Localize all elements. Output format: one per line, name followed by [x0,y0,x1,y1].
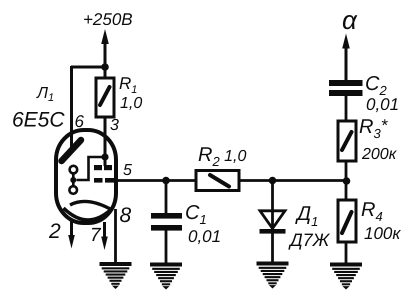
junction node C1 [162,177,170,185]
R3 slash [342,132,352,150]
R4 slash [342,212,352,233]
capacitor C2 [329,80,363,96]
resistor R3 [338,121,356,161]
R2 slash [210,175,229,187]
svg-text:C1: C1 [185,202,207,227]
svg-text:Д1: Д1 [295,203,318,229]
svg-text:0,01: 0,01 [188,227,221,246]
resistor R1 [96,78,114,117]
wire C2 to R3 [345,96,348,121]
pin 8 wire to ground [114,209,117,264]
supply arrow up [101,29,109,78]
capacitor C1 [151,213,182,231]
svg-text:Л1: Л1 [36,85,54,104]
tube deflector upper circle [70,166,78,174]
ground (C1) [150,263,182,290]
junction node D1 [269,177,277,185]
wire D1 top [271,181,274,232]
diode D1 cathode bar [260,229,286,234]
svg-text:100к: 100к [364,224,401,243]
tube anode junction dot [101,153,108,160]
svg-text:2: 2 [48,220,61,243]
output arrow up (node a) [342,34,350,82]
tube deflector dot [70,177,76,183]
tube deflector lower circle [69,186,77,194]
wire C1 bottom [165,230,168,264]
R1 slash [100,87,110,105]
svg-text:1,0: 1,0 [120,95,142,112]
wire R1 bottom to anode dot [104,117,107,166]
wire D1 bottom [271,233,274,263]
svg-text:R1: R1 [119,74,137,96]
pin 2 arrow down [68,219,75,249]
wire R2 to right branch [239,179,347,182]
svg-text:6: 6 [75,112,85,131]
svg-text:7: 7 [90,225,102,246]
svg-text:0,01: 0,01 [366,95,399,114]
ground (D1) [257,262,289,289]
junction node R3/R4 [343,177,351,185]
tube anode dashes [94,165,112,170]
diode D1 [260,211,285,229]
svg-text:R2 1,0: R2 1,0 [198,144,246,169]
wire R4 to ground [345,242,348,264]
svg-text:R3*: R3* [359,116,389,141]
svg-text:8: 8 [120,204,132,227]
ground (pin 8) [100,262,132,289]
svg-text:6Е5С: 6Е5С [12,109,65,132]
junction dot supply/R1/pin6 [101,63,109,71]
svg-text:+250В: +250В [83,10,133,29]
tube internal wire anode-to-deflector [77,157,106,180]
wire R3 to junction [345,161,348,201]
tube deflector link line [72,173,75,186]
svg-text:200к: 200к [361,146,398,163]
wire junction to pin6 lead [71,66,105,69]
tube grid dashes [94,178,114,183]
pin 7 arrow down [101,222,108,250]
resistor R4 [338,200,356,242]
tube cathode arc [70,201,112,210]
svg-text:Д7Ж: Д7Ж [288,230,331,250]
wire pin5 output [116,179,196,182]
ground (R4) [330,263,362,290]
svg-text:3: 3 [110,117,119,134]
tube target electrode (diagonal bar) [62,140,82,161]
tube heater arc [64,208,113,220]
resistor R2 [196,171,239,191]
svg-text:α: α [342,5,358,35]
svg-text:R4: R4 [361,199,383,224]
wire pin 6 vertical [70,66,73,150]
wire C1 top [165,181,168,214]
svg-text:5: 5 [123,162,132,179]
tube U1 envelope [56,130,116,223]
